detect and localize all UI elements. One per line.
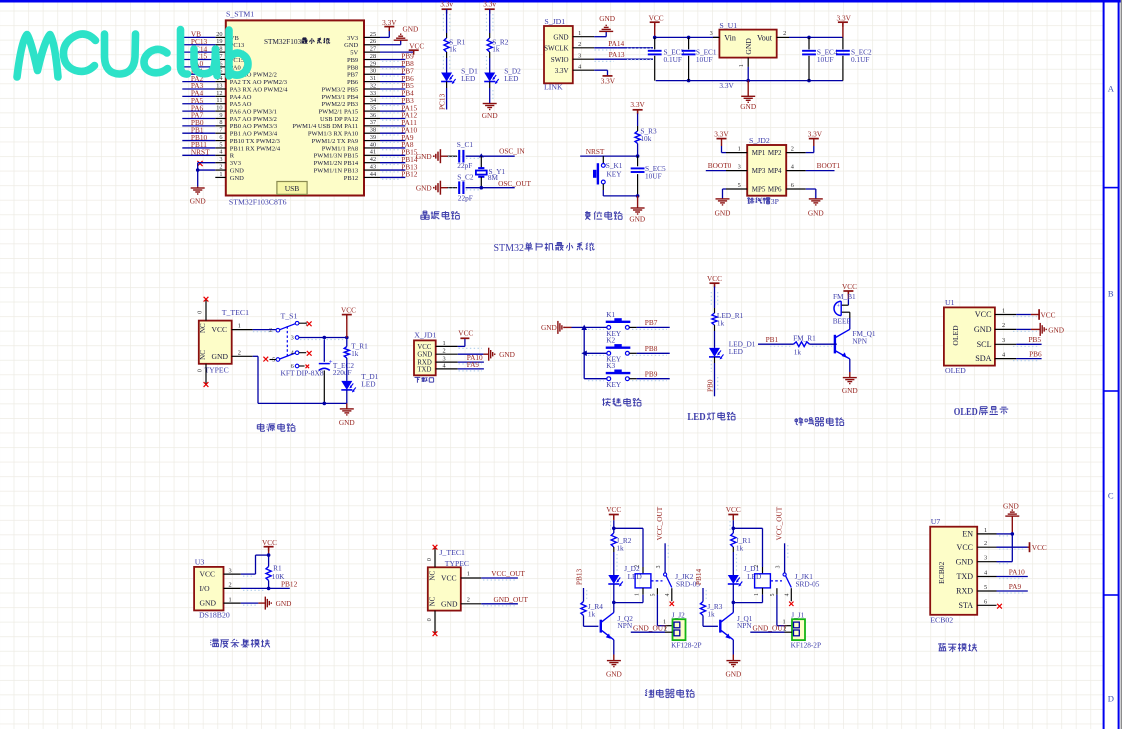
svg-text:SRD-05: SRD-05 bbox=[796, 579, 820, 588]
wire net PB5 at OLED pin 3 bbox=[1016, 335, 1041, 344]
ground at S_JD2 pin 6 bbox=[806, 189, 824, 218]
svg-text:GND: GND bbox=[1048, 326, 1064, 335]
svg-text:STA: STA bbox=[959, 601, 974, 610]
mcu pin 39 PWM1/2 TX PA9 (right) bbox=[312, 134, 380, 145]
svg-text:GND: GND bbox=[482, 111, 498, 120]
power 3.3V at S_JD1 pin 4 bbox=[594, 70, 616, 85]
wire net PA0 to mcu pin 16 bbox=[182, 59, 215, 68]
svg-text:VCC: VCC bbox=[1032, 543, 1047, 552]
wire net GND_OUT relay J_J2 bbox=[631, 623, 673, 632]
title relay circuit bbox=[645, 689, 694, 697]
svg-text:PA7 AO PWM3/2: PA7 AO PWM3/2 bbox=[230, 116, 277, 123]
svg-text:PWM2/2 PB3: PWM2/2 PB3 bbox=[322, 101, 359, 108]
svg-text:PB1 AO PWM3/4: PB1 AO PWM3/4 bbox=[230, 131, 278, 138]
module U7 pin 6 STA bbox=[959, 598, 997, 610]
wire VCC rail to Vin bbox=[653, 36, 719, 40]
svg-text:3V3: 3V3 bbox=[347, 35, 358, 42]
svg-text:3.3V: 3.3V bbox=[714, 130, 729, 139]
wire net PB3 from mcu pin 34 bbox=[380, 96, 414, 106]
svg-text:LED: LED bbox=[687, 411, 705, 423]
module U7 pin 4 TXD bbox=[957, 570, 997, 582]
capacitor T_EC2 220uF bbox=[319, 338, 355, 404]
power VCC relay J_Q1 bbox=[726, 505, 741, 520]
svg-text:LED: LED bbox=[504, 74, 518, 83]
mcu pin 4 R (left) bbox=[215, 149, 235, 160]
ground at OLED pin 2 bbox=[1016, 323, 1064, 336]
power 3.3v above S_R1 bbox=[440, 0, 453, 14]
svg-text:D: D bbox=[1108, 694, 1114, 704]
svg-text:3: 3 bbox=[1002, 337, 1005, 344]
power VCC at mcu pin 27 bbox=[380, 42, 424, 55]
svg-text:NC: NC bbox=[199, 350, 207, 360]
connector S_JD1 pin 4 3.3V bbox=[555, 63, 594, 74]
T_TEC1 bottom shell pin bbox=[197, 364, 209, 387]
svg-text:NPN: NPN bbox=[852, 336, 867, 345]
ground at mcu pin 26 bbox=[380, 24, 418, 44]
svg-text:MP4: MP4 bbox=[768, 167, 782, 175]
svg-text:34: 34 bbox=[370, 97, 377, 104]
svg-text:1: 1 bbox=[754, 593, 760, 596]
wire net PB8 from mcu pin 29 bbox=[380, 59, 414, 69]
svg-text:1k: 1k bbox=[707, 610, 715, 619]
resistor J_R1 1k bbox=[731, 533, 752, 575]
svg-text:5: 5 bbox=[770, 593, 776, 596]
svg-text:1k: 1k bbox=[449, 45, 457, 54]
svg-text:6: 6 bbox=[984, 598, 987, 605]
wire net PB12 at U3 pin 2 bbox=[241, 579, 298, 588]
svg-text:T_S1: T_S1 bbox=[281, 311, 298, 320]
svg-text:GND: GND bbox=[403, 24, 419, 33]
ground at S_JD1 pin 1 bbox=[594, 14, 615, 37]
svg-text:FM_B1: FM_B1 bbox=[833, 292, 856, 301]
svg-text:MP6: MP6 bbox=[768, 186, 782, 194]
wire mcu pins 1-2 to ground bbox=[196, 163, 215, 187]
connector S_JD2 pins 5/6 MP5 MP6 bbox=[726, 182, 806, 194]
svg-text:GND: GND bbox=[740, 102, 756, 111]
svg-text:5: 5 bbox=[272, 357, 275, 364]
compile mask dots bbox=[243, 14, 1039, 606]
svg-text:2: 2 bbox=[634, 565, 640, 568]
svg-text:Vout: Vout bbox=[757, 33, 773, 42]
svg-text:BOOT0: BOOT0 bbox=[708, 161, 732, 170]
svg-text:33: 33 bbox=[370, 90, 376, 97]
wire buzzer to FM_Q1 collector bbox=[849, 312, 851, 329]
wire net PA15 from mcu pin 35 bbox=[380, 103, 418, 113]
ground relay J_Q2 bbox=[606, 661, 622, 679]
wire emitter J_Q1 to ground bbox=[732, 640, 734, 661]
mcu pin 36 USB DP PA12 (right) bbox=[320, 112, 380, 123]
svg-text:PB9: PB9 bbox=[347, 57, 358, 64]
wire net PA13 from S_JD1 pin 3 bbox=[594, 50, 653, 59]
svg-text:9: 9 bbox=[219, 112, 222, 119]
ground below S_D2 bbox=[482, 104, 498, 120]
svg-text:19: 19 bbox=[216, 38, 222, 45]
wire relay J_JK2 pin5 to connector bbox=[657, 595, 672, 626]
wire VCC to LED_R1 bbox=[714, 287, 716, 314]
wire net PB11 to mcu pin 5 bbox=[182, 140, 215, 149]
svg-text:GND: GND bbox=[212, 352, 229, 361]
svg-text:27: 27 bbox=[370, 46, 376, 53]
svg-text:3: 3 bbox=[291, 335, 294, 342]
svg-text:GND: GND bbox=[339, 418, 355, 427]
transistor J_Q1 NPN bbox=[720, 602, 752, 639]
module U1 pin 1 VCC bbox=[975, 307, 1017, 319]
connector S_JD1 pin 2 SWCLK bbox=[544, 41, 594, 52]
ground left of S_C1 bbox=[416, 149, 448, 163]
capacitor S_EC2 0.1UF bbox=[836, 37, 872, 80]
title reset circuit bbox=[585, 211, 622, 220]
svg-text:0.1UF: 0.1UF bbox=[664, 55, 682, 64]
power 3.3V at S_JD2 pin 1 bbox=[714, 130, 729, 153]
svg-text:1: 1 bbox=[738, 146, 741, 153]
svg-text:VCC: VCC bbox=[441, 574, 457, 583]
svg-text:VCC: VCC bbox=[726, 505, 741, 514]
svg-text:VCC: VCC bbox=[458, 328, 473, 337]
mcu pin 9 PA7 AO PWM3/2 (left) bbox=[215, 112, 277, 123]
svg-text:2: 2 bbox=[578, 41, 581, 48]
title LED circuit bbox=[687, 411, 735, 423]
svg-text:PB6: PB6 bbox=[347, 79, 359, 86]
svg-text:20: 20 bbox=[216, 31, 222, 38]
svg-text:GND: GND bbox=[190, 197, 206, 206]
power VCC led circuit bbox=[707, 274, 722, 288]
svg-text:PA9: PA9 bbox=[1009, 582, 1022, 591]
svg-text:NPN: NPN bbox=[737, 621, 752, 630]
svg-text:VCC: VCC bbox=[417, 344, 431, 351]
wire net PA10 at U7 pin 4 bbox=[997, 567, 1028, 576]
power VCC at X_JD1 pin 1 bbox=[458, 328, 474, 346]
svg-text:J_TEC1: J_TEC1 bbox=[439, 548, 465, 557]
svg-text:GND: GND bbox=[842, 386, 858, 395]
svg-text:GND_OUT: GND_OUT bbox=[494, 595, 529, 604]
svg-text:PWM1/3 RX PA10: PWM1/3 RX PA10 bbox=[308, 131, 358, 138]
relay J_JK1 contact bbox=[770, 565, 820, 606]
wire net GND_OUT relay J_J1 bbox=[750, 623, 792, 632]
svg-text:U1: U1 bbox=[945, 298, 955, 307]
module U1 pin 3 SCL bbox=[977, 337, 1017, 349]
wire net PB6 at OLED pin 4 bbox=[1016, 350, 1042, 359]
svg-text:S_STM1: S_STM1 bbox=[226, 10, 254, 19]
wire net VCC_OUT at J_TEC1 pin 1 bbox=[461, 569, 526, 578]
wire net PB4 from mcu pin 33 bbox=[380, 89, 414, 99]
svg-text:31: 31 bbox=[370, 75, 376, 82]
svg-text:10: 10 bbox=[216, 105, 222, 112]
svg-text:2: 2 bbox=[783, 625, 786, 632]
connector J_TEC1 TYPEC body bbox=[428, 548, 469, 610]
svg-text:2: 2 bbox=[443, 348, 446, 355]
module U3 pin 2 I/O bbox=[200, 582, 241, 593]
svg-text:3: 3 bbox=[578, 52, 581, 59]
title power circuit bbox=[257, 423, 295, 431]
svg-text:U7: U7 bbox=[931, 517, 941, 526]
svg-text:GND: GND bbox=[276, 599, 292, 608]
power VCC relay J_Q2 bbox=[606, 505, 621, 520]
svg-text:KEY: KEY bbox=[607, 169, 623, 178]
title STM32 MCU minimal system bbox=[494, 243, 595, 254]
module U7 pin 1 EN bbox=[962, 527, 996, 539]
svg-text:STM32F103: STM32F103 bbox=[264, 38, 301, 46]
ground at X_JD1 pin 2 bbox=[458, 348, 515, 361]
svg-text:Vin: Vin bbox=[724, 33, 736, 42]
svg-text:PB10 TX PWM2/3: PB10 TX PWM2/3 bbox=[230, 138, 280, 145]
resistor S_R1 1k bbox=[444, 38, 466, 54]
wire LED_D1 to net PB0 bbox=[705, 357, 714, 396]
wire net VB to mcu pin 20 bbox=[182, 30, 215, 39]
module U7 pin 5 RXD bbox=[956, 584, 996, 596]
svg-text:KEY: KEY bbox=[606, 380, 622, 389]
svg-text:3: 3 bbox=[229, 567, 232, 574]
led J_D1 LED bbox=[728, 564, 761, 587]
svg-text:35: 35 bbox=[370, 105, 376, 112]
connector X_JD1 pin 3 RXD bbox=[417, 356, 457, 367]
wire key common bbox=[572, 325, 588, 379]
mcu pin 20 VB (left) bbox=[215, 31, 239, 42]
wire net PA6 to mcu pin 10 bbox=[182, 103, 215, 112]
module U1 pin 4 SDA bbox=[975, 351, 1016, 363]
wire J_R3 to J_Q1 base bbox=[703, 616, 718, 627]
svg-text:PA10: PA10 bbox=[1009, 567, 1025, 576]
svg-text:MP5: MP5 bbox=[752, 186, 766, 194]
svg-text:1: 1 bbox=[1002, 307, 1005, 314]
connector J_J1 KF128-2P bbox=[791, 610, 821, 649]
svg-text:VCC: VCC bbox=[200, 570, 216, 579]
wire net PB1 to resistor FM_R1 bbox=[758, 335, 794, 344]
svg-text:PB8: PB8 bbox=[645, 344, 658, 353]
led LED_D1 LED bbox=[709, 339, 756, 359]
svg-text:3.3V: 3.3V bbox=[719, 81, 734, 90]
wire net PA12 from mcu pin 36 bbox=[380, 111, 418, 121]
svg-text:36: 36 bbox=[370, 112, 376, 119]
wire VCC to J_R2 and coil branch bbox=[612, 520, 643, 567]
svg-text:LED: LED bbox=[361, 380, 375, 389]
svg-text:2: 2 bbox=[467, 596, 470, 603]
svg-text:11: 11 bbox=[216, 97, 222, 104]
svg-text:2: 2 bbox=[219, 163, 222, 170]
wire net BOOT0 at S_JD2 pin 3 bbox=[706, 161, 732, 170]
svg-text:VCC_OUT: VCC_OUT bbox=[491, 569, 525, 578]
svg-text:VCC: VCC bbox=[957, 543, 973, 552]
title download port bbox=[415, 377, 434, 383]
svg-text:FM_R1: FM_R1 bbox=[793, 333, 816, 342]
svg-text:13: 13 bbox=[216, 82, 222, 89]
svg-text:PWM1/2 TX PA9: PWM1/2 TX PA9 bbox=[312, 138, 359, 145]
svg-text:10UF: 10UF bbox=[696, 55, 713, 64]
crystal S_Y1 8M bbox=[476, 156, 506, 188]
svg-text:6: 6 bbox=[219, 134, 222, 141]
wire net PB7 from key K1 bbox=[629, 318, 669, 327]
power VCC buzzer bbox=[842, 282, 857, 299]
wire U7 EN and GND to ground bbox=[997, 532, 1015, 562]
svg-text:PA9: PA9 bbox=[467, 360, 480, 369]
wire T_TEC1 pin1 to switch bbox=[232, 323, 276, 330]
mcu pin 40 PWM1/1 PA8 (right) bbox=[322, 141, 380, 152]
ground at S_JD2 pin 5 bbox=[715, 189, 731, 218]
svg-text:SCL: SCL bbox=[977, 340, 992, 349]
wire J_R4 to J_Q2 base bbox=[584, 616, 599, 627]
module U1 OLED body bbox=[944, 298, 995, 375]
svg-text:SDA: SDA bbox=[975, 354, 991, 363]
power 3.3V at S_JD2 pin 2 bbox=[806, 130, 823, 153]
svg-text:STM32: STM32 bbox=[494, 243, 525, 254]
svg-text:PA6 AO PWM3/1: PA6 AO PWM3/1 bbox=[230, 109, 277, 116]
svg-text:5: 5 bbox=[738, 182, 741, 189]
jumper caption 3P bbox=[748, 197, 779, 206]
wire relay J_JK1 pin5 to connector bbox=[777, 595, 792, 626]
connector X_JD1 pin 2 GND bbox=[417, 348, 457, 359]
svg-text:NC: NC bbox=[199, 323, 207, 333]
mcu pin 15 PA1 AO PWM2/2 (left) bbox=[215, 68, 277, 79]
wire net VCC_OUT relay J_JK1 bbox=[774, 506, 784, 573]
mcu pin 16 PA0 AO (left) bbox=[215, 60, 251, 71]
connector S_JD2 pins 3/4 MP3 MP4 bbox=[726, 164, 806, 176]
wire net PA11 from mcu pin 37 bbox=[380, 118, 417, 128]
svg-text:PB14: PB14 bbox=[694, 569, 703, 586]
svg-text:RXD: RXD bbox=[956, 587, 973, 596]
svg-text:39: 39 bbox=[370, 134, 376, 141]
wire S_R2 to S_D2 bbox=[489, 52, 491, 73]
svg-text:S_C2: S_C2 bbox=[457, 173, 474, 182]
svg-text:37: 37 bbox=[370, 119, 376, 126]
wire net PC13 to mcu pin 19 bbox=[182, 37, 215, 46]
no-connect X on mcu pin 3 bbox=[197, 161, 202, 166]
wire net PC15 to mcu pin 17 bbox=[182, 52, 215, 61]
svg-text:43: 43 bbox=[370, 163, 376, 170]
J_TEC1 bottom shell pin bbox=[426, 611, 438, 637]
wire net PA10 from mcu pin 38 bbox=[380, 125, 418, 135]
relay J_JK2 contact bbox=[650, 565, 700, 606]
svg-text:3V3: 3V3 bbox=[230, 160, 241, 167]
svg-text:GND: GND bbox=[499, 350, 515, 359]
svg-text:R: R bbox=[230, 153, 235, 160]
svg-text:A: A bbox=[1108, 84, 1115, 94]
mcu USB port sub-box bbox=[277, 182, 307, 195]
svg-text:5: 5 bbox=[650, 593, 656, 596]
connector X_JD1 body bbox=[414, 330, 436, 375]
capacitor S_C2 22pF bbox=[448, 173, 474, 203]
svg-text:2: 2 bbox=[754, 565, 760, 568]
svg-text:PWM1/4 USB DM PA11: PWM1/4 USB DM PA11 bbox=[292, 123, 358, 130]
svg-text:PB8: PB8 bbox=[347, 64, 358, 71]
resistor LED_R1 1k bbox=[712, 311, 744, 327]
T_TEC1 top shell pin bbox=[197, 297, 209, 321]
svg-text:GND: GND bbox=[629, 215, 645, 224]
svg-text:2: 2 bbox=[1002, 322, 1005, 329]
svg-text:B: B bbox=[1108, 289, 1114, 299]
svg-text:SWIO: SWIO bbox=[551, 56, 569, 64]
wire 3.3v to S_R1 bbox=[446, 9, 448, 38]
svg-text:3: 3 bbox=[984, 555, 987, 562]
svg-text:PA2 TX AO PWM2/3: PA2 TX AO PWM2/3 bbox=[230, 79, 287, 86]
svg-text:30: 30 bbox=[370, 68, 376, 75]
capacitor S_EC1 10UF bbox=[682, 37, 717, 80]
wire ground rail power-circuit bbox=[232, 349, 347, 405]
svg-text:GND: GND bbox=[744, 38, 753, 55]
svg-text:GND: GND bbox=[230, 167, 244, 174]
module U1 pin 2 GND bbox=[974, 322, 1016, 334]
svg-text:PB7: PB7 bbox=[347, 72, 359, 79]
svg-text:1k: 1k bbox=[351, 349, 359, 358]
relay J_JK1 SRD-05 coil bbox=[733, 565, 770, 603]
wire net PA2 to mcu pin 14 bbox=[182, 74, 215, 83]
svg-text:0: 0 bbox=[426, 618, 433, 621]
svg-text:2: 2 bbox=[664, 625, 667, 632]
wire J_D1 to collector node bbox=[732, 584, 736, 604]
svg-text:NC: NC bbox=[428, 596, 436, 606]
svg-text:GND: GND bbox=[416, 152, 432, 161]
resistor FM_R1 1k bbox=[793, 333, 816, 356]
connector S_JD2 pins 1/2 MP1 MP2 bbox=[726, 146, 806, 158]
svg-text:DS18B20: DS18B20 bbox=[199, 611, 230, 620]
svg-text:32: 32 bbox=[370, 82, 376, 89]
svg-text:GND: GND bbox=[715, 209, 731, 218]
svg-text:22pF: 22pF bbox=[458, 193, 473, 202]
svg-text:SWCLK: SWCLK bbox=[544, 44, 569, 52]
svg-text:VCC: VCC bbox=[341, 306, 356, 315]
transistor J_Q2 NPN bbox=[601, 602, 633, 639]
module U7 pin 2 VCC bbox=[957, 540, 997, 552]
svg-text:1k: 1k bbox=[588, 610, 596, 619]
svg-text:PB1: PB1 bbox=[766, 335, 779, 344]
svg-text:1: 1 bbox=[984, 527, 987, 534]
wire net PB1 to mcu pin 7 bbox=[182, 125, 215, 134]
wire net PA3 to mcu pin 13 bbox=[182, 81, 215, 90]
svg-text:PA5 AO: PA5 AO bbox=[230, 101, 252, 108]
wire net PA8 from mcu pin 40 bbox=[380, 140, 414, 150]
svg-text:41: 41 bbox=[370, 149, 376, 156]
svg-text:GND: GND bbox=[230, 175, 244, 182]
svg-text:PB7: PB7 bbox=[645, 318, 658, 327]
svg-text:U3: U3 bbox=[195, 558, 205, 567]
power VCC power-circuit bbox=[341, 306, 356, 338]
bottom 3.3V rail bbox=[656, 79, 843, 90]
power VCC DS18B20 bbox=[262, 538, 277, 555]
svg-text:GND: GND bbox=[599, 14, 615, 23]
mcu pin 29 PB8 (right) bbox=[347, 60, 380, 71]
svg-text:4: 4 bbox=[784, 593, 790, 596]
svg-text:12: 12 bbox=[216, 90, 222, 97]
mcu pin 35 PWM2/1 PA15 (right) bbox=[319, 105, 380, 116]
svg-text:VCC: VCC bbox=[707, 274, 722, 283]
wire emitter to ground buzzer bbox=[849, 359, 851, 378]
wire net PA10 at X_JD1 pin 3 bbox=[458, 353, 484, 362]
mcu pin 11 PA5 AO (left) bbox=[215, 97, 251, 108]
svg-text:PWM1/1N PB13: PWM1/1N PB13 bbox=[314, 167, 359, 174]
capacitor S_EC3 0.1UF bbox=[648, 37, 685, 80]
svg-text:BEEP: BEEP bbox=[833, 316, 851, 325]
wire net PB15 from mcu pin 41 bbox=[380, 148, 418, 158]
title crystal circuit bbox=[421, 211, 460, 219]
svg-text:PB6: PB6 bbox=[1029, 350, 1042, 359]
svg-text:PA3 RX AO PWM2/4: PA3 RX AO PWM2/4 bbox=[230, 86, 288, 93]
svg-text:1k: 1k bbox=[616, 544, 624, 553]
ground above bluetooth bbox=[1003, 502, 1019, 534]
power 3.3V at regulator output bbox=[837, 14, 852, 38]
svg-text:2: 2 bbox=[783, 30, 786, 37]
power VCC at regulator input bbox=[649, 14, 664, 38]
svg-text:1: 1 bbox=[219, 171, 222, 178]
svg-text:GND: GND bbox=[725, 670, 741, 679]
svg-text:GND_OUT: GND_OUT bbox=[753, 623, 788, 632]
mcu pin 44 PB12 (right) bbox=[344, 171, 380, 182]
svg-text:3: 3 bbox=[738, 164, 741, 171]
svg-text:42: 42 bbox=[370, 156, 376, 163]
svg-text:K1: K1 bbox=[606, 310, 615, 319]
svg-text:GND: GND bbox=[808, 209, 824, 218]
svg-text:VCC_OUT: VCC_OUT bbox=[774, 506, 783, 540]
title buzzer circuit bbox=[795, 418, 844, 426]
svg-text:GND: GND bbox=[553, 33, 568, 41]
buzzer FM_B1 BEEP bbox=[833, 292, 856, 325]
